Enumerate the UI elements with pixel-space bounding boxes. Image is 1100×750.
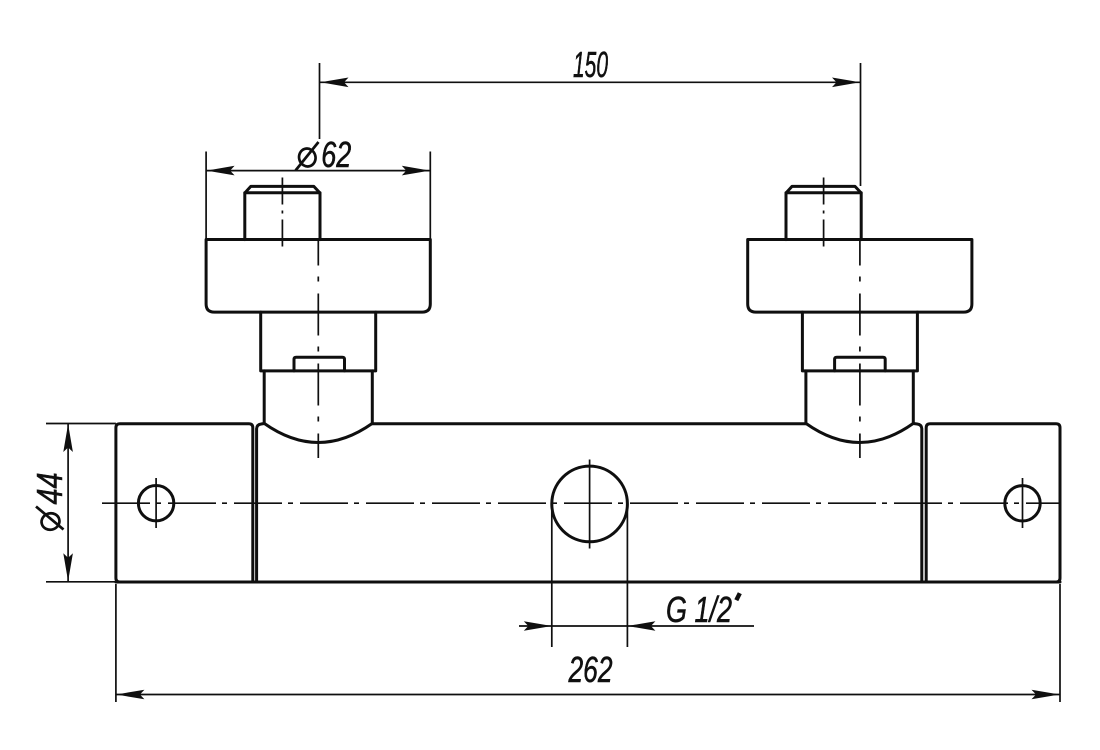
svg-text:44: 44 <box>29 473 70 505</box>
left flange <box>206 240 430 313</box>
dim o62 line <box>206 170 430 172</box>
central outlet circle <box>552 466 628 542</box>
valve body bottom edge <box>116 581 1060 584</box>
right screw cross <box>1022 478 1024 528</box>
svg-text:G 1/2: G 1/2 <box>666 589 732 630</box>
diameter symbol for 62 <box>296 142 319 171</box>
svg-text:262: 262 <box>568 649 613 690</box>
left slot <box>294 357 345 371</box>
right end cap <box>926 424 1060 582</box>
right cap centerline <box>823 178 825 248</box>
left cap centerline <box>281 178 283 248</box>
arrow o44 top <box>63 424 73 452</box>
right neck upper <box>802 312 917 371</box>
main horizontal centerline <box>102 502 1061 504</box>
right screw circle <box>1005 486 1040 521</box>
arrow G12 left <box>524 621 552 631</box>
left neck upper <box>261 312 376 371</box>
arrow 262 left <box>116 690 144 700</box>
right funnel bottom arc <box>806 423 913 442</box>
arrow o62 right <box>402 166 430 176</box>
text o44 rotated <box>29 473 70 532</box>
body top edge middle segment <box>372 422 806 425</box>
left joint line 2 <box>257 424 265 583</box>
left cap inner line <box>245 191 320 194</box>
central circle cross <box>589 460 591 549</box>
svg-text:62: 62 <box>321 134 351 175</box>
right fitting centerline <box>859 240 861 459</box>
arrow 262 right <box>1032 690 1060 700</box>
right joint line 1 <box>913 424 922 583</box>
left funnel sides <box>264 371 372 424</box>
left fitting centerline <box>317 240 319 459</box>
G12 tangent lines <box>552 504 628 647</box>
dim 150 extension lines <box>320 63 861 186</box>
G12 dim line <box>519 625 754 627</box>
inch tick mark <box>736 593 740 600</box>
dim o62 extension lines <box>206 152 430 240</box>
right flange <box>748 240 972 313</box>
left funnel bottom arc <box>264 423 372 442</box>
dim 150 line <box>320 81 861 83</box>
left screw cross <box>155 478 157 528</box>
arrow o62 left <box>207 166 235 176</box>
right funnel sides <box>806 371 913 424</box>
right cap inner line <box>786 191 861 194</box>
dim 262 line <box>116 694 1060 696</box>
dim o44 line <box>67 424 69 582</box>
left screw circle <box>138 486 173 521</box>
left end cap <box>116 424 253 582</box>
right slot <box>835 357 886 371</box>
arrow o44 bottom <box>63 553 73 581</box>
arrow G12 right <box>627 621 655 631</box>
dim o44 extension lines <box>46 424 116 582</box>
dim 262 extension lines <box>116 584 1060 702</box>
arrow 150 right <box>832 78 860 88</box>
right cap outline <box>786 186 861 239</box>
arrow 150 left <box>321 78 349 88</box>
left cap outline <box>245 186 320 239</box>
svg-text:150: 150 <box>573 44 608 85</box>
